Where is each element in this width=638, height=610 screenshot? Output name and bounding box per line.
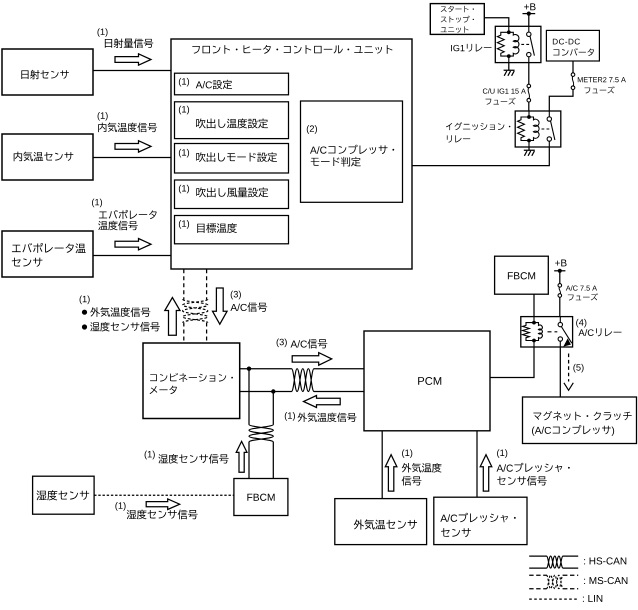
wire: ignition switch to control unit <box>412 147 549 166</box>
label: C/U IG1 15 A <box>483 88 526 93</box>
twisted pair: MS-CAN (vertical) <box>183 299 208 322</box>
label: フューズ <box>485 98 515 105</box>
label: 信号 <box>402 476 422 486</box>
box: A/C pressure sensor <box>434 497 527 544</box>
label: 湿度センサ信号 bullet <box>82 324 87 329</box>
fuse: METER2 7.5A <box>571 73 575 77</box>
wire: +B to IG1 relay switch <box>528 14 530 27</box>
label: エバポレータ <box>99 210 157 219</box>
label: (4) <box>576 319 586 328</box>
wire: DC-DC to METER2 fuse <box>572 61 574 73</box>
box: evaporator temp sensor (エバポレータ温センサ) <box>2 231 93 277</box>
arrow: A/C signal to PCM <box>292 353 332 366</box>
label: (1) 外気温度信号 <box>285 412 295 421</box>
arrow: solar signal <box>115 54 151 65</box>
label: (1) <box>98 112 108 121</box>
label: (1) 吹出しモード設定 <box>179 149 189 158</box>
wire: ignition coil to ground <box>528 147 530 150</box>
label: (1) <box>115 502 125 511</box>
label: センサ <box>12 258 43 267</box>
label: フューズ <box>584 86 614 93</box>
label: (1) <box>80 296 90 305</box>
label: 外気温度 <box>402 463 442 473</box>
label: リレー <box>447 135 470 142</box>
label: イグニッション・ <box>446 122 510 130</box>
box: FBCM (lower) <box>234 479 288 516</box>
arrow: humidity signal <box>146 499 180 510</box>
label: (1) <box>97 28 107 37</box>
label: 外気温センサ <box>354 519 417 529</box>
box: A/C setting <box>175 73 289 95</box>
wire: humidity sensor to FBCM (LIN dashed) <box>94 494 234 496</box>
label: メータ <box>150 386 177 395</box>
wire: HS-CAN to FBCM right <box>272 392 274 479</box>
label: センサ信号 <box>497 476 547 486</box>
label: (1) 目標温度 <box>179 220 189 229</box>
label: コンバータ <box>553 48 594 56</box>
label: (2) <box>307 125 317 134</box>
label: DC-DC <box>553 39 580 45</box>
relay: ignition relay <box>515 111 561 147</box>
legend: LIN sample <box>529 598 578 600</box>
label: FBCM <box>247 494 274 501</box>
wire: IG1 switch to fuse <box>528 63 530 85</box>
arrow: cabin temp signal <box>115 141 151 152</box>
label: (1) 湿度センサ信号 <box>145 451 155 460</box>
box: humidity sensor (湿度センサ) <box>33 476 95 514</box>
label: フロント・ヒータ・コントロール・ユニット <box>192 45 392 54</box>
wire: PCM to A/C pressure sensor <box>476 431 478 497</box>
fuse: A/C 7.5A <box>558 284 562 288</box>
arrow: pressure signal up <box>480 455 492 491</box>
label: (1) <box>92 199 102 208</box>
box: target temperature <box>175 216 289 244</box>
label: フューズ <box>568 293 598 300</box>
label: 外気温度信号 bullet <box>82 310 87 315</box>
label: : LIN <box>583 595 602 602</box>
label: (1) 吹出し風量設定 <box>179 185 189 194</box>
wire: METER2 fuse to ignition relay switch <box>549 90 573 112</box>
label: (3) A/C信号 <box>277 338 287 347</box>
label: 内気温センサ <box>14 152 74 162</box>
box: FBCM (upper) <box>495 256 549 294</box>
label: 日射センサ <box>21 70 69 79</box>
junction: lower bus node <box>271 389 275 393</box>
arrow: unit to meter A/C signal <box>213 288 228 324</box>
wire: solar sensor to control unit <box>93 70 171 72</box>
label: (1) 吹出し温度設定 <box>179 106 189 115</box>
arrow: meter to unit signals <box>165 298 180 336</box>
label: (1) <box>402 449 412 458</box>
label: A/Cプレッシャ・ <box>440 513 515 523</box>
box: combination meter <box>143 343 240 419</box>
label: A/C 7.5 A <box>566 285 597 290</box>
box: PCM <box>364 331 490 431</box>
label: : MS-CAN <box>584 577 627 584</box>
label: ストップ・ <box>441 16 474 23</box>
label: A/Cプレッシャ・ <box>497 463 570 472</box>
box: outlet mode setting <box>175 144 289 174</box>
arrow: humidity signal up <box>236 441 247 472</box>
twisted pair: HS-CAN meter-PCM <box>292 369 315 392</box>
box: outlet air volume setting <box>175 180 289 209</box>
label: 温度信号 <box>98 221 138 231</box>
wire: +B to A/C fuse <box>559 271 561 284</box>
label: 湿度センサ信号 <box>127 510 198 520</box>
label: コンビネーション・ <box>150 373 233 382</box>
label: : HS-CAN <box>584 557 626 564</box>
label: 湿度センサ <box>37 490 90 500</box>
wire: cabin temp sensor to control unit <box>93 157 171 159</box>
label: スタート・ <box>441 6 474 12</box>
label: IG1リレー <box>451 44 491 52</box>
relay: IG1 relay <box>495 26 541 62</box>
label: ユニット <box>441 26 469 32</box>
wire: A/C relay switch to magnet clutch <box>559 347 561 397</box>
label: PCM <box>418 377 441 385</box>
label: (A/Cコンプレッサ) <box>532 425 614 436</box>
label: (3) <box>231 291 241 300</box>
wire: FBCM to A/C relay coil <box>533 294 535 316</box>
label: (1) <box>497 449 507 458</box>
power: +B (A/C) <box>555 260 566 267</box>
wire: A/C relay coil to PCM <box>490 347 534 378</box>
label: A/Cリレー <box>578 328 621 336</box>
legend: HS-CAN sample <box>529 555 578 557</box>
arrow: outside temp signal to meter <box>304 396 341 408</box>
box: magnet clutch <box>523 397 637 444</box>
box: A/C compressor mode determination <box>301 101 403 202</box>
label: 日射量信号 <box>105 38 153 48</box>
wire: HS-CAN upper <box>240 368 364 370</box>
wire: evaporator sensor to control unit <box>93 255 171 257</box>
label: センサ <box>441 528 471 537</box>
wire: A/C fuse to A/C relay switch <box>559 297 561 316</box>
wire: HS-CAN to FBCM left <box>248 369 250 479</box>
wire: IG1 coil to ground <box>508 63 510 71</box>
relay: A/C relay <box>521 317 573 347</box>
box: solar radiation sensor (日射センサ) <box>2 49 93 95</box>
box: ambient temp sensor (外気温センサ) <box>335 499 427 545</box>
label: (1) A/C設定 <box>179 78 189 87</box>
junction: upper bus node <box>247 367 251 371</box>
box: start stop unit <box>430 4 484 35</box>
label: (5) <box>573 364 583 373</box>
fuse: C/U IG1 15A <box>527 84 531 88</box>
wire: start stop unit to IG1 relay coil <box>484 18 509 27</box>
box: DC-DC converter <box>546 30 599 61</box>
wire: MS-CAN dashed line right <box>206 269 208 299</box>
arrow: ambient temp signal up <box>385 455 397 491</box>
wire: MS-CAN dashed line left <box>183 269 185 299</box>
label: マグネット・クラッチ <box>533 411 631 420</box>
ground: IG1 relay <box>504 70 515 76</box>
ground: ignition relay <box>524 150 535 156</box>
label: FBCM <box>508 272 535 279</box>
box: outlet temp setting <box>175 102 289 139</box>
wire: PCM to ambient temp sensor <box>381 431 383 499</box>
power: +B (top) <box>524 3 535 10</box>
label: 内気温度信号 <box>98 123 157 133</box>
label: A/Cコンプレッサ・ <box>310 145 394 154</box>
wire: fuse to ignition relay coil <box>528 102 530 111</box>
label: A/C信号 <box>230 302 267 312</box>
box: cabin temp sensor (内気温センサ) <box>2 134 93 180</box>
label: エバポレータ温 <box>12 243 86 253</box>
arrow: dashed (5) clutch drive <box>568 354 570 382</box>
box: front heater control unit <box>171 39 412 269</box>
twisted pair: HS-CAN FBCM (vertical) <box>249 425 273 443</box>
arrow: evaporator temp signal <box>115 239 151 250</box>
legend: MS-CAN sample <box>529 574 578 576</box>
label: METER2 7.5 A <box>578 77 626 82</box>
label: モード判定 <box>311 157 361 167</box>
wire: HS-CAN lower <box>240 391 364 393</box>
